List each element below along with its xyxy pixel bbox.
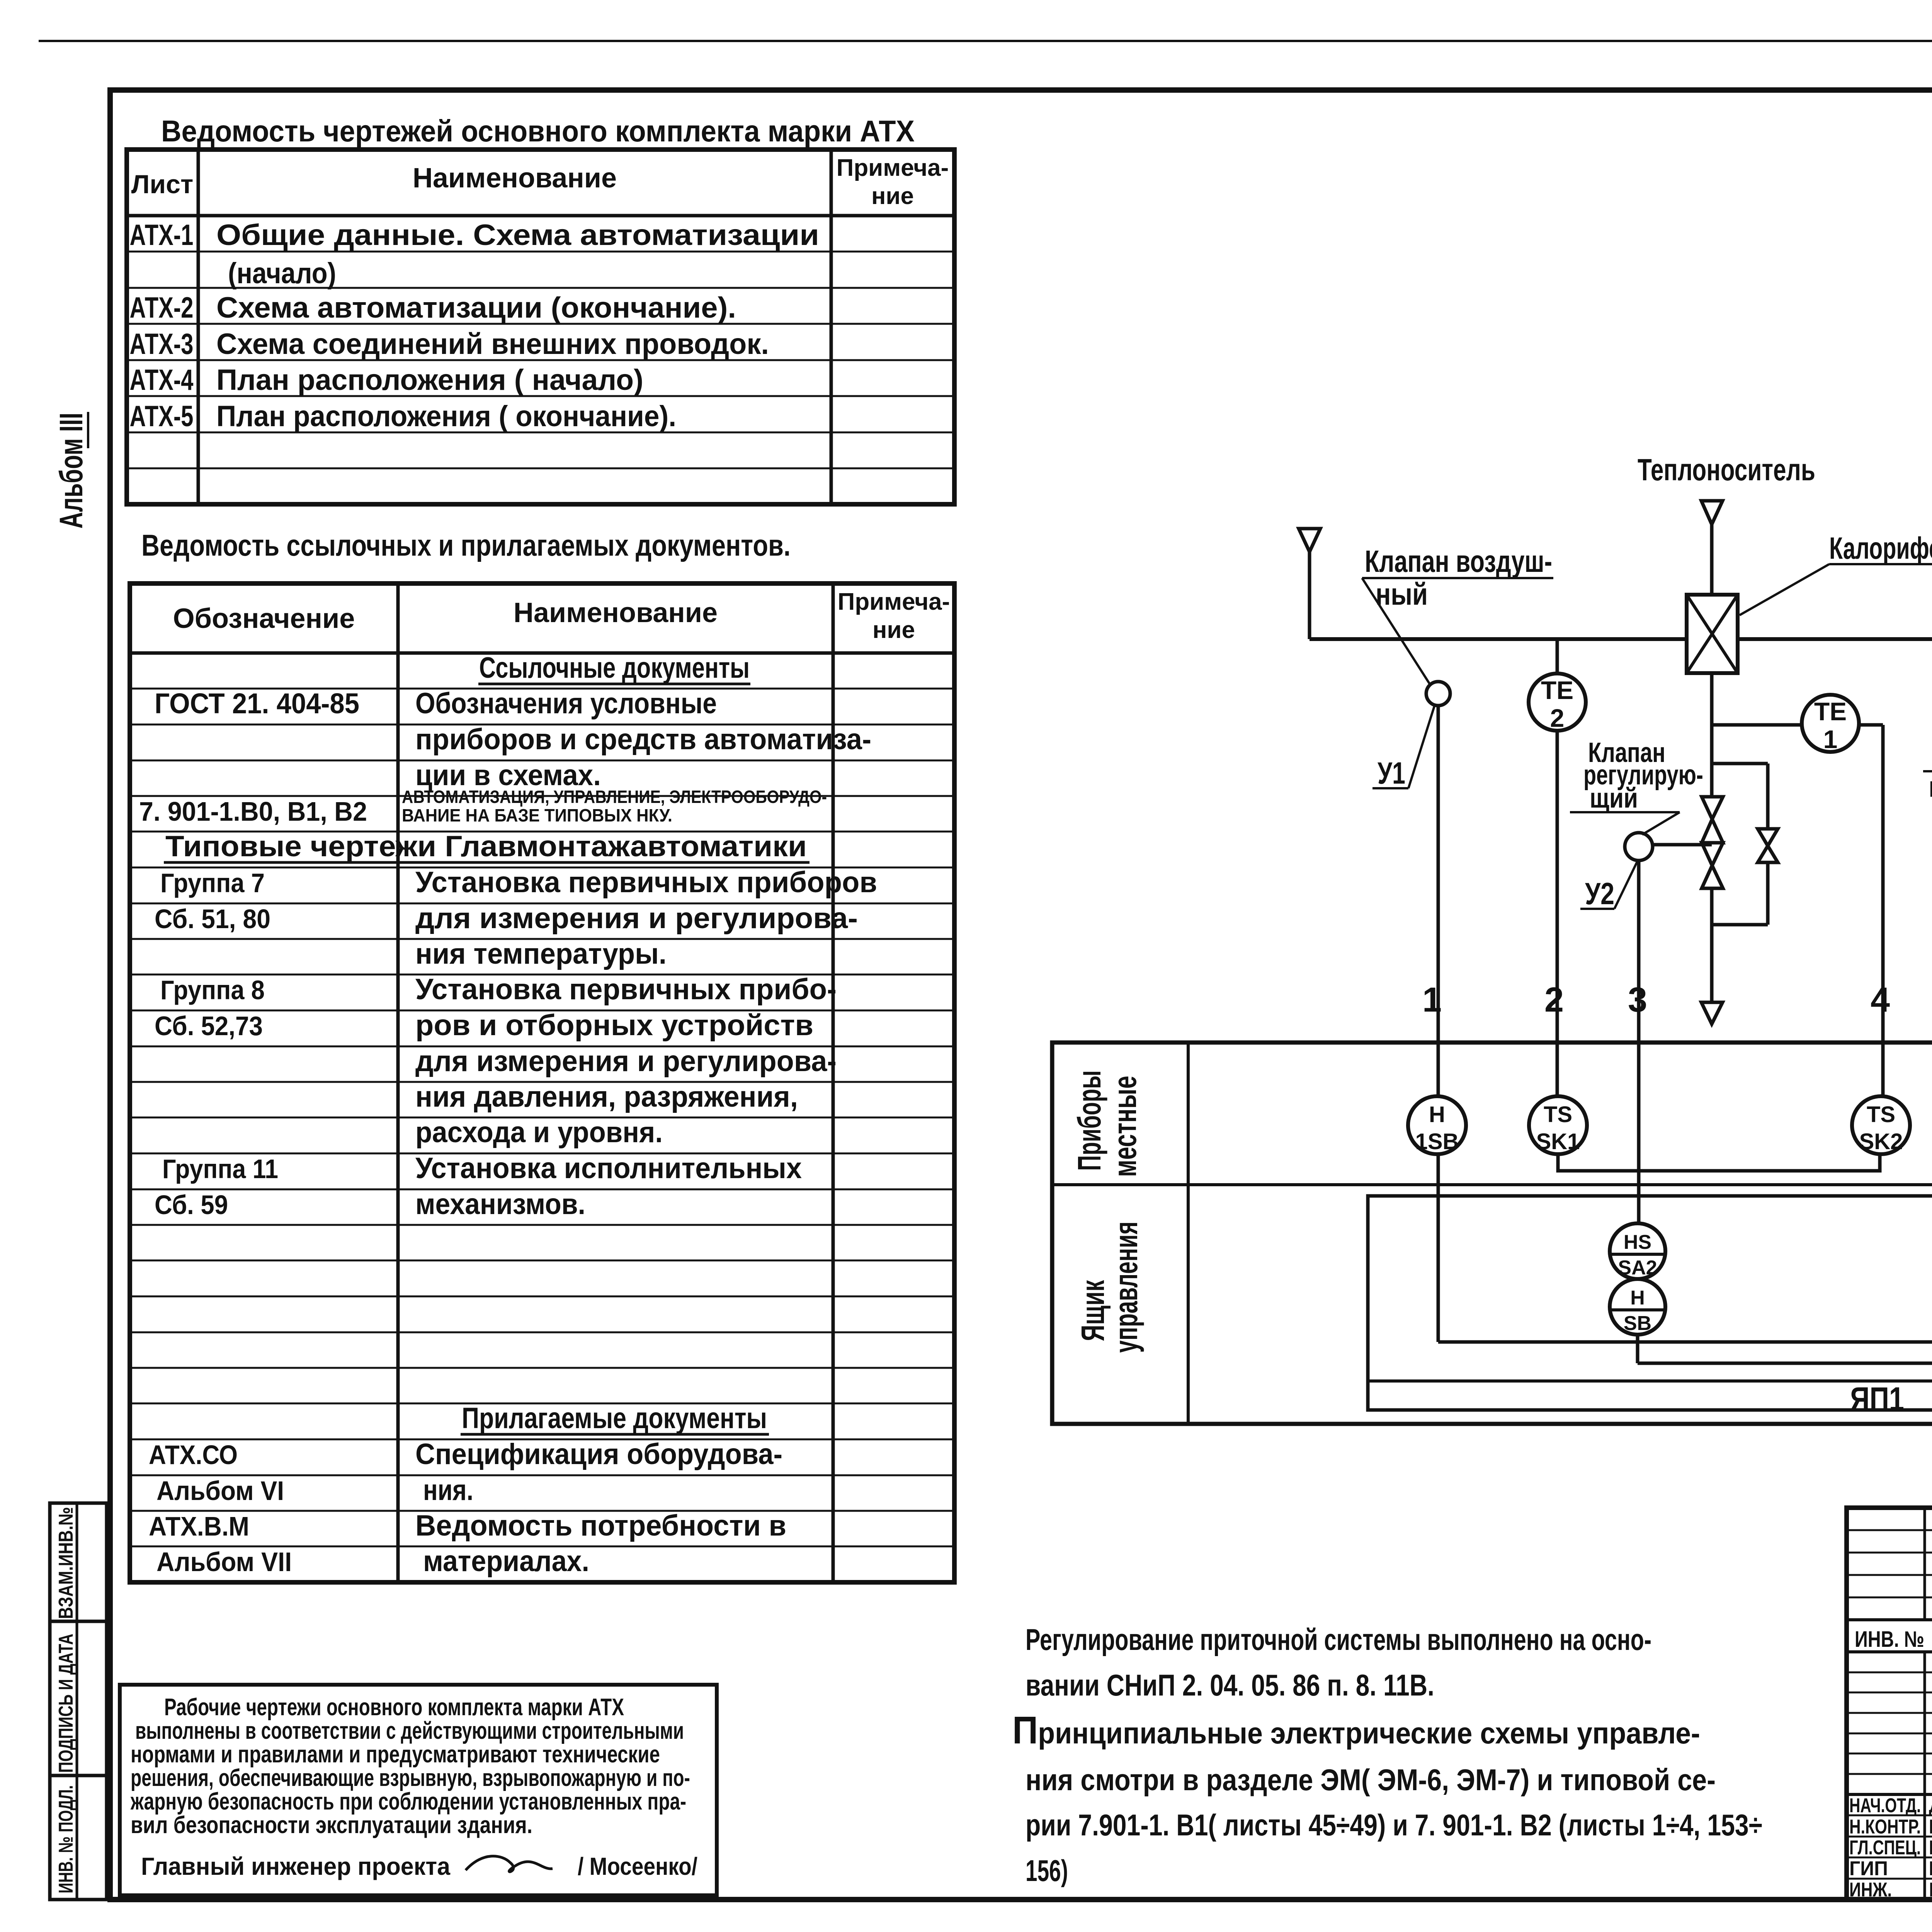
svg-text:Альбом VII: Альбом VII	[156, 1547, 292, 1577]
svg-text:Прилагаемые документы: Прилагаемые документы	[462, 1402, 767, 1435]
svg-text:для измерения и регулирова-: для измерения и регулирова-	[415, 1045, 837, 1078]
instrument band label column	[1187, 1043, 1190, 1424]
svg-text:ПОДПИСЬ И ДАТА: ПОДПИСЬ И ДАТА	[55, 1634, 77, 1773]
svg-text:(начало): (начало)	[228, 257, 336, 290]
svg-text:АТХ.СО: АТХ.СО	[149, 1440, 238, 1470]
stamp box vzam inv	[50, 1503, 107, 1621]
svg-text:ВАНИЕ НА БАЗЕ ТИПОВЫХ НКУ.: ВАНИЕ НА БАЗЕ ТИПОВЫХ НКУ.	[402, 805, 672, 825]
heater calorifer box	[1687, 595, 1738, 673]
svg-text:3: 3	[1628, 981, 1647, 1019]
svg-text:Ссылочные документы: Ссылочные документы	[479, 651, 750, 684]
instrument H SB	[1610, 1279, 1665, 1335]
svg-text:Спецификация оборудова-: Спецификация оборудова-	[415, 1438, 782, 1471]
svg-text:решения, обеспечивающие взры: решения, обеспечивающие взрывную, взрыво…	[131, 1765, 690, 1791]
svg-text:щий: щий	[1590, 783, 1638, 814]
actuator link wire	[1653, 843, 1712, 847]
line 4 wire upper	[1881, 725, 1885, 1097]
klapan reg underline	[1570, 811, 1680, 813]
svg-text:ния.: ния.	[423, 1474, 473, 1507]
svg-text:АТХ-1: АТХ-1	[130, 219, 194, 252]
line 1 wire into band2	[1437, 1154, 1440, 1342]
svg-text:4: 4	[1871, 981, 1890, 1019]
table2 column line note	[832, 583, 835, 1582]
table2 row line 12	[130, 1081, 954, 1083]
bypass bottom wire	[1712, 923, 1768, 927]
svg-text:Главный инженер проекта: Главный инженер проекта	[141, 1852, 450, 1880]
instrument band separator	[1052, 1183, 1932, 1186]
air intake arrow	[1299, 529, 1320, 552]
svg-text:Ведомость потребности в: Ведомость потребности в	[415, 1509, 786, 1542]
svg-text:Группа 7: Группа 7	[160, 868, 265, 898]
svg-text:для измерения и регулиров: для измерения и регулирова-	[415, 902, 858, 935]
page top edge line	[39, 40, 1932, 42]
svg-text:Обозначения условные: Обозначения условные	[415, 687, 717, 720]
svg-text:АТХ-2: АТХ-2	[130, 291, 194, 324]
svg-text:TS: TS	[1867, 1102, 1895, 1127]
stamp inner column line	[76, 1503, 78, 1900]
table2 row line 19	[130, 1332, 954, 1333]
control valve body upper	[1702, 797, 1723, 819]
title block mid row 2	[1847, 1692, 1932, 1694]
title block col line 1	[1923, 1508, 1926, 1620]
title block upper row 2	[1847, 1552, 1932, 1554]
table2 row line 11	[130, 1046, 954, 1048]
line 2 wire lower	[1556, 731, 1559, 1097]
svg-text:Рабочие чертежи основного: Рабочие чертежи основного комплекта марк…	[164, 1694, 624, 1721]
line 3 wire	[1637, 861, 1641, 1223]
svg-text:Обозначение: Обозначение	[173, 603, 355, 634]
svg-text:Схема соединений внешних пр: Схема соединений внешних проводок.	[216, 328, 769, 361]
svg-text:У2: У2	[1585, 876, 1614, 911]
table2 outer border	[130, 583, 954, 1582]
table2 row line 5	[130, 831, 954, 833]
svg-text:SA2: SA2	[1618, 1257, 1657, 1279]
supply duct right segment	[1738, 637, 1932, 641]
klapan vozdushny leader	[1362, 578, 1430, 684]
air damper U1	[1426, 682, 1450, 706]
table2 row line 1	[130, 688, 954, 690]
svg-text:Лист: Лист	[131, 170, 194, 199]
svg-text:нормами и правилами и пред: нормами и правилами и предусматривают те…	[131, 1741, 660, 1768]
panel box YP1	[1368, 1196, 1932, 1410]
title block sign row 2	[1847, 1836, 1932, 1838]
svg-text:ния температуры.: ния температуры.	[415, 937, 667, 970]
table1 column line list	[197, 150, 200, 504]
svg-text:SK1: SK1	[1536, 1129, 1580, 1154]
svg-text:Примеча-: Примеча-	[837, 155, 949, 181]
table2 row line 15	[130, 1189, 954, 1190]
table1 row line 1	[127, 251, 954, 253]
SK1 SK2 link wire	[1558, 1154, 1880, 1171]
svg-text:ДАНИЛОВ: ДАНИЛОВ	[1929, 1794, 1932, 1817]
svg-text:Регулирование приточной сист: Регулирование приточной системы выполнен…	[1026, 1622, 1651, 1656]
svg-text:АТХ.В.М: АТХ.В.М	[149, 1511, 249, 1541]
table2 row line 21	[130, 1403, 954, 1405]
title block outer	[1847, 1508, 1932, 1900]
svg-text:рии 7.901-1. В1( листы 45÷49: рии 7.901-1. В1( листы 45÷49) и 7. 901-1…	[1026, 1808, 1762, 1842]
table2 column line oboznachenie	[396, 583, 400, 1582]
heater diagonal 1	[1687, 595, 1738, 673]
svg-text:2: 2	[1544, 981, 1564, 1019]
table2 row line 10	[130, 1010, 954, 1012]
bypass wire upper	[1766, 764, 1770, 829]
svg-text:ТЕ: ТЕ	[1541, 676, 1573, 704]
instrument band outer	[1052, 1043, 1932, 1424]
title block sign rows top	[1847, 1793, 1932, 1796]
wire bus A	[1438, 1340, 1932, 1344]
table1 outer border	[127, 150, 954, 504]
table2 row line 14	[130, 1153, 954, 1155]
svg-text:Типовые чертежи Главмонтажа: Типовые чертежи Главмонтажавтоматики	[165, 830, 807, 863]
title block mid row 3	[1847, 1712, 1932, 1714]
svg-text:расхода и уровня.: расхода и уровня.	[415, 1116, 663, 1149]
table2 row line 16	[130, 1224, 954, 1226]
table1 row line 7	[127, 468, 954, 469]
table2 row line 22	[130, 1439, 954, 1440]
table1 header line	[127, 214, 954, 218]
table2 row line 20	[130, 1367, 954, 1369]
table2 row line 3	[130, 760, 954, 762]
svg-text:Ведомость чертежей основног: Ведомость чертежей основного комплекта м…	[161, 114, 915, 148]
pritochny underline	[1923, 770, 1932, 772]
table1 row line 3	[127, 323, 954, 325]
svg-text:Группа 8: Группа 8	[160, 975, 265, 1005]
heat supply arrow	[1701, 501, 1723, 524]
table2 header line	[130, 651, 954, 655]
svg-text:ГИП: ГИП	[1849, 1857, 1888, 1880]
klapan reg leader	[1642, 812, 1680, 835]
svg-text:Н.КОНТР.: Н.КОНТР.	[1849, 1816, 1921, 1838]
svg-text:Н: Н	[1630, 1287, 1645, 1309]
instrument TE1	[1802, 695, 1859, 752]
svg-text:Установка исполнительных: Установка исполнительных	[415, 1152, 802, 1185]
svg-text:жарную безопасность при соб: жарную безопасность при соблюдении устан…	[130, 1788, 686, 1815]
svg-text:Установка первичных приборо: Установка первичных приборов	[415, 866, 877, 899]
title block inv band bottom	[1847, 1650, 1932, 1653]
table2 row line 9	[130, 974, 954, 976]
panel box strip line	[1368, 1379, 1932, 1383]
svg-text:Сб. 51, 80: Сб. 51, 80	[155, 904, 270, 934]
album underline	[87, 412, 89, 448]
title block mid row 1	[1847, 1672, 1932, 1673]
air intake drop wire	[1308, 552, 1311, 639]
table2 row line 8	[130, 938, 954, 940]
svg-text:Ведомость ссылочных и прила: Ведомость ссылочных и прилагаемых докуме…	[141, 528, 791, 562]
svg-text:SB: SB	[1624, 1312, 1651, 1335]
svg-text:механизмов.: механизмов.	[415, 1188, 585, 1221]
instrument H 1SB	[1408, 1096, 1466, 1154]
svg-text:вил безопасности эксплуатаци: вил безопасности эксплуатации здания.	[131, 1812, 532, 1838]
svg-text:приборов и средств автомати: приборов и средств автоматиза-	[415, 723, 871, 756]
svg-text:Наименование: Наименование	[413, 163, 617, 194]
svg-text:АТХ-4: АТХ-4	[130, 364, 194, 396]
svg-text:Приборы: Приборы	[1071, 1070, 1107, 1171]
svg-text:ГЕЧАС: ГЕЧАС	[1929, 1879, 1932, 1901]
svg-text:местные: местные	[1107, 1076, 1143, 1177]
svg-text:АТХ-3: АТХ-3	[130, 328, 194, 361]
svg-text:У1: У1	[1378, 756, 1405, 790]
table2 row line 24	[130, 1510, 954, 1512]
svg-text:ИНВ. №: ИНВ. №	[1855, 1627, 1924, 1652]
heat return arrow	[1701, 1002, 1723, 1024]
table2 row line 25	[130, 1546, 954, 1548]
control valve body lower	[1702, 843, 1723, 866]
svg-text:ГОСТ 21. 404-85: ГОСТ 21. 404-85	[155, 687, 359, 719]
svg-text:МОСЕЕНКО: МОСЕЕНКО	[1929, 1816, 1932, 1838]
svg-text:1: 1	[1823, 725, 1838, 753]
heat return wire	[1710, 888, 1714, 1002]
table2 prilagaemye underline	[461, 1433, 769, 1436]
title block upper row 4	[1847, 1597, 1932, 1599]
instrument TE2	[1529, 673, 1586, 731]
U1 leader	[1408, 706, 1434, 788]
svg-text:материалах.: материалах.	[423, 1545, 589, 1578]
svg-text:ТЕ: ТЕ	[1814, 697, 1847, 726]
svg-text:Калорифер: Калорифер	[1829, 531, 1932, 565]
title block inv band top	[1847, 1618, 1932, 1621]
svg-text:Наименование: Наименование	[514, 597, 718, 628]
U2 underline	[1580, 908, 1614, 910]
svg-text:Альбом III: Альбом III	[53, 413, 89, 529]
svg-text:HS: HS	[1624, 1231, 1651, 1253]
kalorifer leader	[1740, 564, 1829, 615]
title block mid row 4	[1847, 1733, 1932, 1735]
svg-text:управления: управления	[1108, 1221, 1144, 1353]
svg-text:7. 901-1.В0, В1, В2: 7. 901-1.В0, В1, В2	[139, 796, 367, 827]
svg-text:ров и отборных устройств: ров и отборных устройств	[415, 1009, 813, 1042]
table2 row line 13	[130, 1117, 954, 1119]
svg-text:НАЧ.ОТД.: НАЧ.ОТД.	[1849, 1794, 1921, 1817]
TE1 branch wire right	[1859, 723, 1883, 727]
svg-text:Группа 11: Группа 11	[162, 1154, 278, 1184]
title block mid row 6	[1847, 1773, 1932, 1775]
svg-text:TS: TS	[1544, 1102, 1572, 1127]
title block mid row 5	[1847, 1753, 1932, 1755]
bypass valve	[1758, 829, 1778, 846]
table2 row line 18	[130, 1296, 954, 1298]
table2 ssylochnye underline	[478, 683, 750, 685]
table1 row line 4	[127, 359, 954, 361]
table1 row line 5	[127, 395, 954, 397]
U2 leader	[1614, 862, 1637, 909]
svg-text:ГОЛЬЦМАН: ГОЛЬЦМАН	[1929, 1837, 1932, 1859]
svg-text:Теплоноситель: Теплоноситель	[1638, 452, 1815, 487]
svg-text:ЯП1: ЯП1	[1850, 1381, 1904, 1418]
svg-text:вании СНиП 2. 04. 05. 86 п.: вании СНиП 2. 04. 05. 86 п. 8. 11В.	[1026, 1668, 1434, 1702]
svg-text:АВТОМАТИЗАЦИЯ, УПРАВЛЕНИЕ, ЭЛЕ: АВТОМАТИЗАЦИЯ, УПРАВЛЕНИЕ, ЭЛЕКТРООБОРУД…	[402, 787, 827, 807]
instrument TS SK2	[1852, 1096, 1910, 1154]
svg-text:ние: ние	[872, 617, 915, 643]
work note box	[120, 1685, 717, 1895]
alarm signal wire	[1638, 1362, 1932, 1365]
svg-text:Сб. 52,73: Сб. 52,73	[155, 1011, 263, 1041]
table2 row line 7	[130, 903, 954, 905]
svg-text:ВЗАМ.ИНВ.№: ВЗАМ.ИНВ.№	[55, 1507, 77, 1619]
svg-text:SK2: SK2	[1859, 1129, 1903, 1154]
chief engineer signature	[466, 1856, 553, 1872]
line 1 wire middle	[1437, 706, 1440, 1097]
stamp box podpis i data	[50, 1621, 107, 1776]
svg-text:ние: ние	[871, 183, 914, 209]
svg-text:Сб. 59: Сб. 59	[155, 1190, 228, 1220]
instrument TS SK1	[1529, 1096, 1587, 1154]
svg-text:Схема автоматизации (окончани: Схема автоматизации (окончание).	[216, 291, 736, 324]
title block sign row 4	[1847, 1878, 1932, 1880]
kalorifer underline	[1829, 563, 1932, 565]
table1 row line 2	[127, 287, 954, 289]
svg-text:Ящик: Ящик	[1075, 1280, 1111, 1341]
supply duct left segment	[1310, 637, 1687, 641]
title block upper row 3	[1847, 1574, 1932, 1576]
heater diagonal 2	[1687, 595, 1738, 673]
table2 row line 2	[130, 724, 954, 726]
svg-text:ИНВ. № ПОДЛ.: ИНВ. № ПОДЛ.	[55, 1785, 77, 1893]
svg-text:Клапан воздуш-: Клапан воздуш-	[1365, 544, 1552, 578]
svg-text:выполнены в соответствии с: выполнены в соответствии с действующими …	[135, 1718, 684, 1744]
bypass wire lower	[1766, 862, 1770, 925]
svg-text:1SB: 1SB	[1415, 1129, 1459, 1154]
heat supply wire upper	[1710, 524, 1714, 595]
svg-text:Установка первичных прибо-: Установка первичных прибо-	[415, 973, 837, 1006]
table1 row line 6	[127, 432, 954, 434]
svg-text:План расположения ( начало): План расположения ( начало)	[216, 364, 643, 396]
svg-text:Общие данные. Схема автомат: Общие данные. Схема автоматизации	[216, 219, 819, 252]
table2 tipovye underline	[164, 861, 810, 864]
svg-text:ИНЖ.: ИНЖ.	[1849, 1879, 1892, 1901]
svg-text:2: 2	[1550, 704, 1565, 732]
bypass branch wire top	[1712, 762, 1768, 765]
table2 row line 23	[130, 1475, 954, 1476]
svg-text:Альбом VI: Альбом VI	[156, 1476, 284, 1506]
svg-text:ния смотри в разделе ЭМ(: ния смотри в разделе ЭМ( ЭМ-6, ЭМ-7) и т…	[1026, 1763, 1716, 1797]
TE1 branch wire left	[1712, 723, 1802, 727]
U1 underline	[1372, 787, 1408, 789]
svg-text:ния давления, разряжения,: ния давления, разряжения,	[415, 1080, 798, 1113]
H SB drop wire	[1636, 1335, 1639, 1363]
title block upper row 1	[1847, 1529, 1932, 1531]
svg-text:156): 156)	[1026, 1854, 1068, 1888]
svg-text:План расположения ( окончание: План расположения ( окончание).	[216, 400, 676, 433]
control valve actuator U2	[1625, 833, 1653, 861]
svg-text:ГЛ.СПЕЦ.: ГЛ.СПЕЦ.	[1849, 1837, 1921, 1859]
table2 row line 17	[130, 1260, 954, 1262]
svg-text:Принципиальные электрические: Принципиальные электрические схемы управ…	[1012, 1709, 1700, 1752]
svg-text:МОСЕЕНКО: МОСЕЕНКО	[1929, 1857, 1932, 1880]
svg-text:Примеча-: Примеча-	[838, 588, 950, 615]
instrument HS SA2	[1610, 1223, 1665, 1279]
table2 row line 4	[130, 795, 954, 797]
title block sign row 3	[1847, 1857, 1932, 1859]
line 2 wire top	[1556, 639, 1559, 673]
title block sign row 1	[1847, 1815, 1932, 1816]
klapan vozdushny underline	[1362, 577, 1553, 579]
table2 row line 6	[130, 867, 954, 869]
stamp box inv no podl	[50, 1776, 107, 1900]
heat supply wire below heater	[1710, 673, 1714, 797]
table1 column line note	[830, 150, 833, 504]
svg-text:/ Мосеенко/: / Мосеенко/	[578, 1852, 697, 1880]
svg-text:АТХ-5: АТХ-5	[130, 400, 194, 433]
svg-text:ный: ный	[1376, 577, 1428, 611]
svg-text:Н: Н	[1429, 1102, 1445, 1127]
svg-text:вентилятор: вентилятор	[1929, 770, 1932, 803]
